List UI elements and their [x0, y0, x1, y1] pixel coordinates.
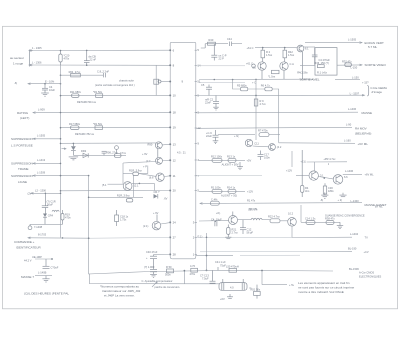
svg-text:+6V ML: +6V ML [365, 173, 375, 177]
svg-text:100n: 100n [264, 156, 270, 160]
transistor TR11 [245, 139, 268, 147]
ground under CR1 [69, 157, 78, 160]
wire suppression porteuse [11, 134, 61, 148]
central vertical bus x=256 [255, 79, 257, 140]
svg-text:L50 470uH: L50 470uH [226, 264, 239, 268]
svg-text:22 P: 22 P [219, 57, 225, 61]
SORTIE VIDEO row [300, 59, 386, 69]
svg-text:1.5xx: 1.5xx [266, 53, 273, 57]
svg-text:et J46P La vers meme.: et J46P La vers meme. [104, 293, 135, 297]
resistor R11 680 [70, 90, 103, 104]
jog corner on left rail [89, 274, 219, 284]
svg-text:L-90: L-90 [346, 122, 352, 126]
wire into TR6 base [123, 162, 157, 164]
wire from pin1 [196, 254, 233, 256]
bottom ground rail [89, 270, 333, 274]
svg-text:+21(: +21( [300, 160, 305, 164]
svg-text:8-1703: 8-1703 [38, 233, 47, 237]
svg-text:-6(: -6( [320, 198, 323, 202]
capacitor C7 [205, 96, 219, 111]
svg-text:1.5xx: 1.5xx [288, 53, 295, 57]
svg-text:R04_27xx: R04_27xx [69, 70, 81, 74]
svg-text:trim: trim [305, 189, 309, 193]
C51 cap [200, 270, 216, 283]
sortie amel row [297, 71, 369, 85]
svg-text:CR.?: CR.? [154, 190, 160, 194]
transistor TR4 [280, 62, 294, 70]
svg-text:50uF: 50uF [47, 203, 53, 207]
connector right rail [172, 42, 196, 258]
svg-text:TRAME: TRAME [18, 167, 29, 171]
+5V arrow [261, 270, 295, 287]
TV row [199, 232, 368, 239]
svg-text:MASSE: MASSE [362, 111, 373, 115]
svg-text:SUPPRESSION: SUPPRESSION [11, 162, 33, 166]
svg-text:500x: 500x [165, 273, 171, 277]
svg-text:4.5 : 21: 4.5 : 21 [177, 151, 186, 155]
svg-text:R? 470x: R? 470x [258, 129, 268, 133]
wire L-1306 second mains line [29, 60, 170, 66]
svg-text:ALIGNT + 50(: ALIGNT + 50( [221, 194, 237, 198]
svg-text:LIGNE: LIGNE [18, 180, 27, 184]
wire row diodes [73, 154, 126, 156]
TR1 emitter lead [302, 52, 304, 79]
svg-text:C.4%: C.4% [211, 197, 218, 201]
mains input bracket [10, 50, 33, 67]
wire 2V stub [28, 188, 62, 195]
svg-text:(4.2: (4.2 [277, 145, 282, 149]
svg-text:+CV: +CV [364, 250, 369, 254]
vertical x=133.4 [132, 176, 134, 198]
diode CR4 [43, 208, 54, 225]
svg-text:+ 2(: + 2( [338, 198, 343, 202]
+6V/ML row [279, 138, 369, 146]
svg-text:SUPPRESSION: SUPPRESSION [11, 174, 33, 178]
transistor TR6 [146, 157, 170, 164]
resistor R42 [283, 48, 295, 62]
svg-text:C41 1 uF: C41 1 uF [215, 260, 226, 264]
svg-text:12: 12 [173, 158, 177, 162]
connector top link [172, 41, 194, 43]
svg-text:L-160: L-160 [344, 138, 351, 142]
svg-text:C.A: C.A [290, 62, 295, 66]
transistor TR8 [149, 173, 170, 181]
svg-text:ELECTRONIQUES: ELECTRONIQUES [359, 274, 381, 278]
TR3 leg [261, 70, 263, 79]
trimmer arrow [152, 282, 157, 287]
resistor R18 row [88, 194, 143, 202]
footnote left [100, 285, 141, 298]
svg-text:22nF: 22nF [205, 101, 211, 105]
suppression ligne stub [11, 170, 89, 184]
svg-text:1 - 1305: 1 - 1305 [32, 46, 42, 50]
wire y=65.8 into TR3 [196, 62, 256, 68]
TR13 feed [232, 212, 234, 217]
svg-text:(2.1): (2.1) [197, 235, 202, 239]
C41 labels [215, 260, 226, 270]
svg-text:+12V: +12V [247, 190, 253, 194]
diode CR2 [154, 190, 168, 200]
svg-text:TV: TV [365, 236, 369, 240]
svg-text:L-1309: L-1309 [37, 170, 46, 174]
svg-text:(2.1: (2.1 [134, 184, 139, 188]
svg-text:+5V: +5V [247, 159, 252, 163]
svg-text:10: 10 [173, 94, 177, 98]
wire row to TR5 [60, 143, 156, 145]
MASSE row [196, 107, 372, 115]
svg-text:(2.1): (2.1) [143, 224, 148, 228]
svg-text:56 pF: 56 pF [247, 231, 254, 235]
svg-text:+61 C: +61 C [247, 46, 254, 50]
svg-text:transformateur sur J405_J02: transformateur sur J405_J02 [102, 289, 141, 293]
svg-text:L-1403: L-1403 [351, 199, 360, 203]
ECRAN VERT row [305, 38, 384, 49]
wire into TR13 [199, 220, 229, 222]
svg-text:parche de conversion.: parche de conversion. [155, 285, 181, 289]
svg-text:R.1 (+6x: R.1 (+6x [317, 71, 328, 75]
svg-text:*1.0xx: *1.0xx [268, 75, 276, 79]
svg-text:C14 1.3x: C14 1.3x [305, 216, 316, 220]
capacitor C15 [102, 151, 107, 155]
resistor R24 27k [69, 70, 81, 77]
svg-text:C4_10uF: C4_10uF [211, 217, 222, 221]
+6V gnd bottom [220, 294, 233, 301]
svg-text:7-1408: 7-1408 [34, 225, 43, 229]
capacitor C3 to ground [42, 83, 55, 93]
svg-text:RETARD 782 us: RETARD 782 us [75, 132, 95, 136]
svg-text:(6.6: (6.6 [149, 175, 154, 179]
resistor R2 [261, 48, 273, 62]
TR14 down wire to TV row [291, 226, 293, 237]
svg-text:SORTIE VIDEO: SORTIE VIDEO [365, 63, 387, 67]
svg-text:L-1406: L-1406 [348, 107, 357, 111]
svg-text:11: 11 [173, 174, 176, 178]
BL-1506 row [349, 267, 381, 278]
UE stub [24, 255, 59, 269]
svg-text:(?) 1.96F: (?) 1.96F [144, 265, 155, 269]
svg-text:(5.1: (5.1 [102, 183, 107, 187]
resistor R9 [254, 99, 266, 106]
svg-text:+12V: +12V [286, 169, 292, 173]
svg-text:R13 1x: R13 1x [227, 154, 236, 158]
svg-text:R22 4.7xx: R22 4.7xx [268, 215, 280, 219]
capacitor C1 22pF [211, 44, 226, 61]
svg-text:R17 680x: R17 680x [69, 122, 81, 126]
svg-text:2.7xx: 2.7xx [232, 231, 239, 235]
svg-text:R40: R40 [209, 38, 214, 42]
svg-text:L-1406: L-1406 [345, 169, 354, 173]
svg-text:ne sont pas fournis sur ce ci: ne sont pas fournis sur ce circuit impri… [298, 286, 355, 290]
svg-text:CR4: CR4 [48, 214, 54, 218]
svg-text:RA MOV: RA MOV [355, 126, 367, 130]
C14 R38 row [301, 216, 343, 228]
svg-text:44.2 V: 44.2 V [24, 259, 32, 263]
+61V rail [247, 46, 298, 50]
resistor R08 [106, 151, 127, 158]
fuse R19b [61, 210, 71, 224]
svg-text:10uF: 10uF [49, 88, 55, 92]
resistor R15 on masse row [210, 197, 257, 211]
suppression trame stub [11, 158, 61, 171]
svg-text:(LEFT): (LEFT) [20, 116, 29, 120]
svg-text:L-1505: L-1505 [37, 134, 46, 138]
svg-text:L.S PORTEUSE: L.S PORTEUSE [11, 143, 33, 147]
R12b R14 row [199, 185, 253, 197]
svg-text:'SORTIE AMEL: 'SORTIE AMEL [299, 77, 320, 81]
+21V row [300, 157, 347, 171]
R44 trim [301, 150, 310, 197]
svg-text:R12 100x: R12 100x [211, 154, 223, 158]
svg-text:+ 5v: + 5v [289, 283, 295, 287]
fuse F1 470mA [59, 50, 70, 65]
wire row retard 1 [60, 95, 171, 97]
svg-text:19: 19 [173, 126, 177, 130]
vertical x=123 [122, 163, 124, 184]
resistor R51 [251, 285, 261, 299]
capacitor C2 22nF [84, 50, 97, 66]
svg-text:180x: 180x [328, 189, 334, 193]
svg-text:R4(1.56x: R4(1.56x [297, 71, 308, 75]
svg-text:L - 1306: L - 1306 [32, 60, 42, 64]
GEMA row wire [196, 85, 387, 96]
svg-text:7.5uF: 7.5uF [202, 277, 209, 281]
svg-text:+6V: +6V [220, 297, 225, 301]
svg-text:C44: C44 [227, 37, 232, 41]
svg-text:-6(: -6( [14, 81, 17, 85]
wire stub L-10 [14, 79, 61, 85]
vertical wire x=156 with sensor box [95, 65, 170, 95]
svg-text:+ P: + P [143, 165, 147, 169]
svg-text:L-1505: L-1505 [348, 38, 357, 42]
svg-text:75uF: 75uF [220, 264, 226, 268]
resistor R52 on rail [226, 264, 239, 272]
pin ticks + numbers right rail [195, 50, 197, 254]
svg-text:+6(.: +6(. [216, 211, 221, 215]
svg-text:+ 6V: + 6V [153, 211, 159, 215]
svg-text:Les elements apparaissant en: Les elements apparaissant en trait fin [298, 281, 350, 285]
+6V row with R41 [218, 129, 280, 138]
svg-text:L-150: L-150 [352, 76, 359, 80]
svg-text:C40 47uF: C40 47uF [146, 250, 158, 254]
svg-text:R51 50x: R51 50x [251, 288, 261, 292]
svg-text:10.2: 10.2 [288, 212, 294, 216]
svg-text:13: 13 [173, 142, 177, 146]
+6V ML stub [343, 169, 374, 177]
resistor R49 [190, 264, 198, 276]
transistor TR13 [229, 216, 238, 225]
ground g2 [237, 162, 243, 170]
svg-text:L-140B: L-140B [38, 271, 47, 275]
vertical x=206.5 [206, 233, 208, 271]
resistor R43 [268, 70, 279, 78]
footnote right [298, 281, 355, 294]
svg-text:R1R_3.9xx: R1R_3.9xx [117, 194, 131, 198]
svg-text:C.8_2.2nF: C.8_2.2nF [97, 69, 110, 73]
svg-text:RATING: RATING [17, 111, 29, 115]
svg-text:+ 6V: + 6V [142, 152, 148, 156]
svg-text:E - 10%: E - 10% [45, 79, 55, 83]
svg-text:27: 27 [173, 236, 177, 240]
svg-text:C11: C11 [254, 141, 259, 145]
svg-text:SUPPRESSION: SUPPRESSION [11, 137, 33, 141]
svg-text:BL-190: BL-190 [348, 246, 357, 250]
rails under oscillator [199, 78, 313, 80]
capacitor C10 [42, 193, 56, 207]
stub arrow from bus [62, 148, 67, 150]
svg-text:1 rouge: 1 rouge [13, 62, 24, 66]
svg-text:(BELIER+B): (BELIER+B) [355, 131, 371, 135]
svg-text:R32 47x: R32 47x [342, 59, 352, 63]
transistor TR7 low [102, 182, 154, 191]
transistor TR14 [288, 212, 297, 227]
svg-text:+ C: + C [252, 80, 256, 84]
C40 capacitor chain [144, 250, 170, 277]
faint mid row [196, 174, 262, 176]
R5 / R6 row [233, 80, 279, 143]
masse stub + ground [21, 271, 52, 282]
wire L-1305 top mains line [29, 46, 170, 51]
svg-text:montre a titre indicatif.: montre a titre indicatif. Voir PAGE [298, 290, 344, 294]
svg-text:22uF: 22uF [206, 134, 212, 138]
svg-text:MASSE 7: MASSE 7 [21, 275, 34, 279]
svg-text:6.6: 6.6 [344, 175, 348, 179]
svg-text:DR2: DR2 [81, 149, 87, 153]
svg-text:L2 - 1306: L2 - 1306 [35, 188, 47, 192]
wire row retard 2 [60, 127, 171, 129]
svg-text:RETARD 504 us: RETARD 504 us [77, 100, 97, 104]
delay line DL1 [219, 279, 252, 290]
capacitor C5 [201, 83, 212, 96]
transistor TR10 [318, 175, 348, 185]
transistor TR12 [269, 144, 282, 151]
svg-text:BY ML: BY ML [375, 205, 383, 209]
transistor TR1 top right [297, 45, 315, 52]
svg-text:1.75x: 1.75x [120, 218, 127, 222]
long left vertical wire x=88.6 [88, 176, 90, 274]
main left vertical bus [60, 65, 62, 238]
capacitor C44 [227, 37, 242, 46]
TR4 leg [283, 70, 285, 79]
faint row y=237.5 left [90, 237, 170, 240]
svg-text:L - 150?: L - 150? [350, 92, 360, 96]
svg-text:L-150: L-150 [351, 65, 358, 69]
capacitor C9 [206, 130, 219, 144]
svg-text:R1 47x: R1 47x [247, 199, 256, 203]
svg-text:+PR 4.7xx: +PR 4.7xx [323, 157, 336, 161]
svg-text:470x: 470x [65, 216, 71, 220]
svg-text:L-1413: L-1413 [37, 158, 46, 162]
resistor R7b [96, 94, 103, 98]
svg-text:20: 20 [173, 189, 177, 193]
svg-text:+61 C: +61 C [246, 62, 253, 66]
svg-text:(2.7: (2.7 [146, 159, 151, 163]
svg-text:4.7xx: 4.7xx [260, 102, 267, 106]
resistor R50 [165, 265, 174, 277]
svg-text:R5 680x: R5 680x [237, 84, 247, 88]
svg-text:R11 680x: R11 680x [70, 90, 82, 94]
svg-text:R1R_3.9xx: R1R_3.9xx [129, 169, 143, 173]
svg-text:R 50: R 50 [166, 265, 172, 269]
transistor TR3 [253, 62, 267, 70]
capacitor C17 [258, 151, 271, 161]
connector left rail [170, 42, 172, 258]
wire row rating L-909 [17, 107, 170, 120]
pins left rail [169, 49, 171, 255]
wire row 8-1703 [14, 233, 90, 250]
resistor R22 [268, 215, 288, 223]
svg-text:*R1 50x: *R1 50x [93, 122, 103, 126]
MASSE GAMET row [200, 199, 387, 207]
component box with C4/R36 [312, 48, 337, 76]
RA MOV row [196, 122, 372, 135]
svg-text:24: 24 [173, 221, 177, 225]
svg-text:d'image: d'image [372, 90, 383, 94]
wire row y=190.8 [60, 190, 171, 192]
svg-text:*Numeros correspondants au: *Numeros correspondants au [100, 285, 139, 289]
R12 R13 row [199, 154, 251, 166]
+12V drop [286, 151, 292, 173]
svg-text:+6V ML: +6V ML [358, 142, 369, 146]
input RC network [201, 38, 228, 48]
svg-text:au secteur: au secteur [10, 56, 24, 60]
ground [41, 93, 49, 96]
svg-text:ALIGNT + 50V: ALIGNT + 50V [222, 163, 239, 167]
svg-text:C?0uF: C?0uF [51, 265, 59, 269]
svg-text:R38 47x: R38 47x [325, 216, 335, 220]
svg-text:C. Ajustable compensateur: C. Ajustable compensateur [142, 279, 173, 283]
svg-text:4.70: 4.70 [190, 264, 196, 268]
transistor TR5 [148, 142, 171, 157]
svg-text:R6 4.7x: R6 4.7x [261, 84, 271, 88]
svg-text:470x: 470x [190, 272, 196, 276]
+CV row [200, 246, 369, 253]
test point P [28, 224, 43, 229]
svg-text:470x: 470x [64, 57, 70, 61]
svg-text:UE-1MP: UE-1MP [32, 255, 42, 259]
svg-text:28: 28 [173, 253, 177, 257]
svg-text:(sortie verticale convergenc: (sortie verticale convergence 110 ) [95, 83, 135, 87]
svg-text:18: 18 [173, 110, 177, 114]
resistor R19 row [123, 165, 156, 177]
svg-text:5.7 ML: 5.7 ML [368, 45, 378, 49]
inductor L2 [52, 210, 59, 211]
svg-text:4.0: 4.0 [230, 286, 234, 290]
svg-text:L-1404: L-1404 [350, 232, 359, 236]
svg-text:R7 47x: R7 47x [249, 207, 258, 211]
diode CR1 vertical [71, 143, 76, 155]
svg-text:(C)IL DES HEURES (PENTE PA: (C)IL DES HEURES (PENTE PAL [24, 292, 69, 296]
transistor TR9 [296, 171, 324, 180]
svg-text:C4 470uF: C4 470uF [319, 58, 331, 62]
svg-text:R14 1x: R14 1x [227, 185, 236, 189]
svg-text:(2V: (2V [28, 192, 32, 196]
svg-text:+ 15?: + 15? [362, 81, 369, 85]
svg-text:C7xx: C7xx [120, 151, 127, 155]
wire row y=224.4 [30, 223, 63, 225]
resistor R18b vertical [115, 210, 129, 226]
capacitor C18 2.2nF [97, 69, 110, 77]
capacitor C12 [240, 220, 254, 235]
svg-text:chassis suite: chassis suite [119, 79, 134, 83]
svg-text:BL-1506: BL-1506 [349, 267, 359, 271]
resistor R17 [69, 122, 103, 136]
svg-text:A-Csr CMOS: A-Csr CMOS [359, 270, 374, 274]
svg-text:IDENTIFICATEUR: IDENTIFICATEUR [16, 246, 41, 250]
svg-text:R36_150 (?): R36_150 (?) [314, 61, 329, 65]
vertical from TR14 area up [300, 205, 302, 222]
R21 to ground [225, 224, 238, 238]
R45 [323, 183, 334, 194]
